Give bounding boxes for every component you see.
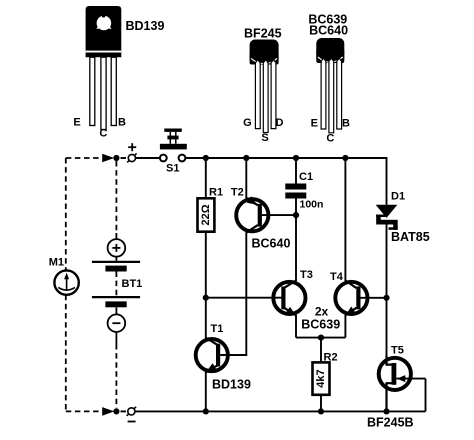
junction T1 emitter/bottom rail xyxy=(203,408,209,414)
svg-text:B: B xyxy=(342,118,350,130)
junction R2/bottom rail xyxy=(318,408,324,414)
svg-text:S: S xyxy=(261,132,268,144)
svg-text:E: E xyxy=(73,117,80,129)
svg-text:BT1: BT1 xyxy=(122,278,143,290)
wire stub to - terminal xyxy=(121,410,127,412)
wire dashed measuring loop bottom xyxy=(66,410,102,412)
wire top rail S1 to D1 corner xyxy=(185,158,386,205)
svg-text:22Ω: 22Ω xyxy=(200,204,212,225)
current arrow top xyxy=(102,154,114,163)
transistor T1 (BD139, NPN) xyxy=(196,338,247,373)
wire node to T3 base xyxy=(206,297,284,299)
FET T5 (BF245B, JFET) xyxy=(379,356,426,411)
svg-text:T3: T3 xyxy=(300,269,313,281)
svg-text:100n: 100n xyxy=(300,198,324,210)
junction D1/T4 base/T5 drain xyxy=(383,295,389,301)
svg-text:G: G xyxy=(243,117,252,129)
wire C1 top xyxy=(295,158,297,184)
svg-text:BAT85: BAT85 xyxy=(391,230,430,244)
wire T4 collector from top rail xyxy=(344,158,346,281)
junction T4/top rail xyxy=(342,155,348,161)
wire battery branch dashed top xyxy=(115,161,117,233)
svg-text:B: B xyxy=(118,117,126,129)
junction T5 source/bottom rail xyxy=(383,408,389,414)
svg-text:T4: T4 xyxy=(330,271,344,283)
switch S1 (push button) xyxy=(160,129,187,162)
current arrow bottom xyxy=(102,407,114,416)
wire common emitter rail xyxy=(296,337,345,339)
svg-text:BD139: BD139 xyxy=(126,19,165,33)
svg-text:M1: M1 xyxy=(49,257,64,269)
wire to T5 drain xyxy=(386,298,388,359)
svg-text:BF245B: BF245B xyxy=(367,415,414,429)
wire bottom rail xyxy=(135,410,426,412)
wire D1 cathode down xyxy=(386,224,388,297)
junction battery + node xyxy=(113,155,119,161)
svg-text:E: E xyxy=(311,118,318,130)
battery BT1 xyxy=(92,233,140,344)
resistor R2 xyxy=(313,362,330,394)
junction R1/T1/T3 node xyxy=(203,295,209,301)
wire T2 emitter from top rail xyxy=(245,158,247,199)
junction C1/T2 base/T3 collector xyxy=(293,212,299,218)
svg-text:R1: R1 xyxy=(209,186,223,198)
svg-text:D1: D1 xyxy=(391,191,405,203)
terminal - (connector) xyxy=(127,407,136,422)
wire T2 collector to T1 base xyxy=(220,232,246,355)
svg-text:BF245: BF245 xyxy=(244,27,282,41)
junction battery - node xyxy=(113,408,119,414)
wire dashed measuring loop left (M1 branch) xyxy=(65,158,67,271)
svg-text:C1: C1 xyxy=(299,171,313,183)
svg-text:BC639: BC639 xyxy=(301,317,340,331)
transistor T4 (BC639, NPN mirrored) xyxy=(335,281,386,316)
wire dashed measuring loop top xyxy=(66,157,102,159)
resistor R1 xyxy=(198,198,215,231)
junction emitter rail / R2 xyxy=(318,335,324,341)
wire node to T1 collector xyxy=(205,298,207,339)
meter M1 xyxy=(54,270,78,294)
package BF245 (TO-92 case drawing) xyxy=(250,40,279,133)
svg-text:C: C xyxy=(326,133,334,145)
junction R1/top rail xyxy=(203,155,209,161)
transistor T3 (BC639, NPN) xyxy=(273,281,305,316)
capacitor C1 xyxy=(285,184,306,190)
terminal + (connector) xyxy=(127,143,136,162)
wire C1 bottom to T3 collector xyxy=(295,199,297,282)
svg-text:BD139: BD139 xyxy=(212,377,251,391)
junction T2/top rail xyxy=(243,155,249,161)
wire R1 bottom to node xyxy=(205,232,207,298)
wire T4 emitter down xyxy=(344,315,346,338)
wire R2 bottom xyxy=(320,395,322,412)
package BD139 (TO-126 case drawing) xyxy=(86,6,122,130)
svg-text:D: D xyxy=(276,117,284,129)
svg-text:S1: S1 xyxy=(166,163,179,175)
svg-text:T5: T5 xyxy=(391,344,404,356)
transistor T2 (BC640, PNP) xyxy=(236,196,296,232)
wire R2 top xyxy=(320,338,322,363)
svg-text:C: C xyxy=(99,128,107,140)
svg-text:4k7: 4k7 xyxy=(315,369,327,387)
svg-text:R2: R2 xyxy=(324,351,338,363)
wire battery branch dashed bottom xyxy=(115,344,117,408)
wire + terminal to S1 xyxy=(136,157,160,159)
junction C1/top rail xyxy=(293,155,299,161)
wire stub to + terminal xyxy=(121,157,127,159)
wire T5 gate down to bottom rail xyxy=(425,379,427,412)
wire T1 emitter to bottom rail xyxy=(205,372,207,412)
diode D1 (BAT85 Schottky) xyxy=(376,205,398,230)
package BC639/BC640 (TO-92 case drawing) xyxy=(316,38,344,133)
wire T3 emitter down xyxy=(295,315,297,338)
svg-text:T2: T2 xyxy=(231,187,244,199)
svg-text:BC640: BC640 xyxy=(309,24,348,38)
wire R1 top xyxy=(205,158,207,198)
svg-text:BC640: BC640 xyxy=(252,236,291,250)
svg-text:T1: T1 xyxy=(211,323,224,335)
